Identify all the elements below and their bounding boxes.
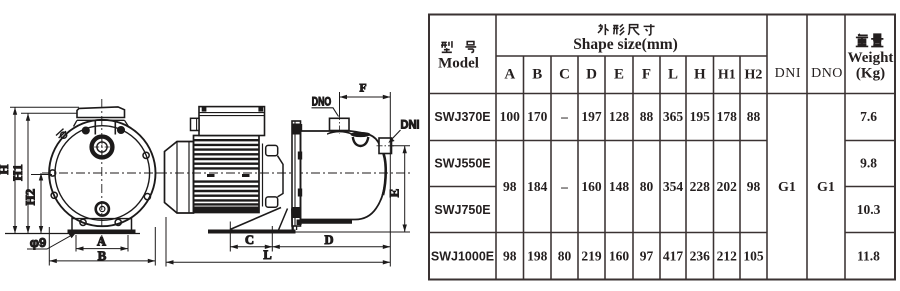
base extension line: [296, 231, 411, 233]
svg-text:105: 105: [743, 249, 764, 264]
svg-text:F: F: [642, 67, 651, 83]
rim bolt 10:30: [61, 132, 67, 138]
svg-text:F: F: [359, 83, 366, 95]
svg-text:80: 80: [558, 249, 572, 264]
svg-text:98: 98: [747, 179, 761, 194]
foot baseplate: [68, 230, 136, 234]
motor fins: [194, 140, 260, 204]
svg-text:H1: H1: [718, 68, 736, 83]
front view centerline horizontal: [42, 172, 164, 174]
svg-text:219: 219: [581, 249, 602, 264]
flange base nub: [297, 220, 302, 226]
foot right wall: [131, 218, 133, 230]
svg-text:198: 198: [527, 249, 548, 264]
svg-text:9.8: 9.8: [860, 156, 877, 171]
dimension B: [49, 227, 155, 266]
fan cover seams: [177, 142, 189, 214]
svg-text:DNI: DNI: [401, 119, 420, 131]
side view centerline: [158, 172, 410, 174]
side baseplate: [208, 230, 296, 234]
DNO label: [312, 97, 339, 117]
svg-text:88: 88: [747, 109, 761, 124]
svg-text:160: 160: [581, 179, 602, 194]
pump casing outer circle: [49, 120, 155, 226]
table outer border: [429, 15, 895, 280]
svg-text:D: D: [586, 67, 597, 83]
svg-text:C: C: [245, 233, 254, 247]
priming port cross dashes: [94, 140, 110, 156]
header zhongliang glyphs: [856, 34, 884, 46]
svg-text:C: C: [559, 67, 570, 83]
svg-text:100: 100: [500, 109, 521, 124]
casing right edge heavy: [380, 146, 386, 195]
svg-text:10.3: 10.3: [857, 202, 881, 217]
svg-text:11.8: 11.8: [857, 249, 880, 264]
cap skirt left: [74, 120, 78, 126]
top cap: [77, 107, 125, 118]
foot left wall: [71, 218, 73, 230]
DNI port: [379, 138, 392, 154]
dimension C: [230, 222, 272, 252]
rim bolt 12:45 filled: [118, 127, 125, 134]
foot top edge: [72, 218, 132, 220]
svg-text:(Kg): (Kg): [856, 66, 885, 82]
svg-text:H2: H2: [23, 189, 38, 206]
svg-text:E: E: [614, 67, 624, 83]
svg-text:DNI: DNI: [775, 66, 801, 81]
svg-text:Weight: Weight: [848, 50, 894, 66]
svg-text:SWJ1000E: SWJ1000E: [431, 250, 494, 264]
drain plug outer: [96, 202, 109, 215]
motor vent right: [242, 174, 250, 177]
bearing bracket: [278, 156, 284, 197]
svg-text:L: L: [668, 67, 678, 83]
rim bolt 11:15 filled: [83, 127, 90, 134]
dimension F: [340, 83, 391, 138]
flange top bolt: [293, 124, 301, 135]
dimension L: [166, 217, 390, 267]
base bottom line: [5, 233, 140, 235]
svg-text:DNO: DNO: [811, 66, 843, 81]
svg-text:G1: G1: [817, 180, 835, 195]
DNO port centerline: [339, 114, 341, 134]
svg-text:212: 212: [717, 249, 738, 264]
svg-text:B: B: [98, 248, 107, 263]
svg-text:L: L: [263, 248, 271, 262]
motor body: [194, 136, 260, 213]
svg-text:7.6: 7.6: [860, 109, 877, 124]
svg-text:178: 178: [717, 109, 738, 124]
header xinghao glyphs: [441, 41, 476, 52]
svg-text:φ9: φ9: [30, 235, 47, 250]
svg-text:354: 354: [663, 179, 684, 194]
flange foot lines: [293, 226, 296, 230]
cap neck: [95, 120, 115, 134]
svg-text:Shape size(mm): Shape size(mm): [573, 36, 678, 53]
svg-text:417: 417: [663, 249, 684, 264]
top-left lug: [56, 129, 66, 138]
svg-text:SWJ370E: SWJ370E: [434, 110, 490, 124]
svg-text:228: 228: [690, 179, 711, 194]
motor bottom dark band: [194, 207, 260, 213]
drain plug inner: [100, 206, 105, 211]
svg-text:236: 236: [690, 249, 711, 264]
dimension H: [0, 107, 79, 233]
terminal box lid lines: [199, 113, 265, 116]
front view centerline vertical: [101, 99, 103, 244]
svg-text:197: 197: [581, 109, 602, 124]
table vertical grid: [496, 15, 845, 280]
DNO port fillet: [327, 130, 352, 135]
svg-text:D: D: [324, 233, 333, 247]
svg-text:SWJ550E: SWJ550E: [434, 157, 490, 171]
svg-text:A: A: [504, 67, 515, 83]
svg-text:170: 170: [527, 109, 548, 124]
priming plug cup arc: [353, 137, 369, 146]
rim bolt 1:45: [143, 152, 149, 158]
pump casing body: [301, 131, 386, 220]
cap skirt right: [125, 120, 129, 126]
pump support leg: [279, 209, 293, 231]
rim bolt 5:20: [115, 219, 121, 225]
casing cover bolt nubs: [298, 124, 302, 131]
pump casing inner rim circle: [55, 126, 150, 221]
bracket top lug: [266, 145, 278, 155]
svg-text:B: B: [532, 67, 542, 83]
svg-text:–: –: [560, 179, 568, 194]
rim bolt 4:15: [144, 194, 150, 200]
motor end ring: [262, 144, 264, 207]
svg-text:365: 365: [663, 109, 684, 124]
svg-text:Model: Model: [438, 56, 479, 72]
DNO port: [330, 118, 350, 130]
rim bolt 8:15: [51, 192, 57, 198]
merged values 550E/750E: [503, 179, 760, 194]
svg-text:E: E: [386, 189, 401, 198]
dimension D: [272, 137, 390, 252]
dimension H1: [10, 113, 77, 233]
svg-text:–: –: [560, 109, 568, 124]
svg-text:DNO: DNO: [312, 97, 332, 109]
dimension A: [76, 235, 128, 252]
svg-text:160: 160: [609, 249, 630, 264]
support strut: [230, 208, 281, 230]
header waixingchicun glyphs: [598, 24, 655, 35]
svg-text:98: 98: [503, 179, 517, 194]
DNI port centerline: [377, 145, 397, 147]
priming plug head: [351, 132, 371, 137]
svg-text:148: 148: [609, 179, 630, 194]
svg-text:128: 128: [609, 109, 630, 124]
dimension phi9 label: [27, 233, 76, 250]
svg-text:H: H: [694, 67, 706, 83]
svg-text:A: A: [97, 235, 106, 249]
motor vent left: [207, 174, 215, 177]
dimension E: [386, 146, 410, 232]
flange bottom bolt: [293, 207, 301, 218]
terminal box: [199, 107, 265, 136]
svg-text:184: 184: [527, 179, 548, 194]
svg-text:G1: G1: [778, 180, 796, 195]
flange inner line: [294, 121, 296, 226]
priming port inner circle: [97, 142, 107, 152]
svg-text:97: 97: [640, 249, 654, 264]
casing bottom dark band: [301, 220, 352, 224]
svg-text:195: 195: [690, 109, 711, 124]
dimension H2: [23, 173, 53, 234]
fan cover: [165, 142, 194, 214]
svg-text:202: 202: [717, 179, 738, 194]
terminal box corner blocks: [202, 107, 207, 112]
svg-text:98: 98: [503, 249, 517, 264]
bracket bottom lug: [266, 197, 278, 207]
rim bolt 6:40: [80, 219, 86, 225]
rim bolt 9:00: [50, 170, 56, 176]
cap flange line: [77, 119, 125, 121]
svg-text:H1: H1: [10, 164, 25, 181]
svg-text:SWJ750E: SWJ750E: [434, 203, 490, 217]
svg-text:H2: H2: [745, 68, 763, 83]
flange plate: [292, 121, 301, 226]
cable gland: [191, 118, 200, 130]
table horizontal grid: [496, 55, 767, 57]
svg-text:80: 80: [640, 179, 654, 194]
DNI label: [388, 119, 419, 143]
priming port outer ring: [92, 137, 113, 158]
svg-text:88: 88: [640, 109, 654, 124]
